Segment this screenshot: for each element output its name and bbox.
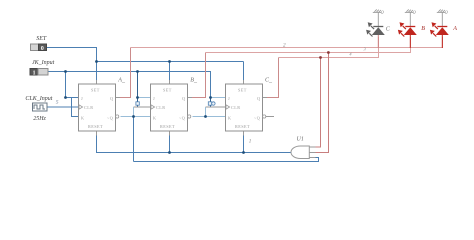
svg-text:J: J: [81, 96, 83, 101]
svg-text:~Q: ~Q: [254, 115, 260, 120]
pin stub SET of A: [96, 80, 98, 84]
ground net 0 above LED C: [373, 9, 381, 26]
pin stub Q of A: [116, 97, 121, 99]
wire J of C stub: [211, 97, 226, 99]
wire SET drop to FF A: [96, 62, 98, 85]
junction JK at x137: [136, 70, 139, 73]
pin stub Q of B: [188, 97, 193, 99]
svg-text:B_: B_: [190, 78, 198, 84]
AND gate U1: [291, 146, 315, 159]
flip-flop C clock triangle: [226, 105, 230, 109]
pin stub RESET of A: [96, 131, 98, 136]
junction notQ of B: [204, 115, 207, 118]
wire SET switch to corner: [47, 48, 97, 62]
flip-flop C box: [226, 84, 263, 131]
svg-text:Q: Q: [257, 96, 260, 101]
pin stub SET of B: [169, 80, 171, 84]
wire step notQ of B up to CLK row: [205, 107, 207, 117]
wire J row to K of A: [72, 98, 79, 117]
wire Q of B to LED B: [192, 53, 206, 98]
flip-flop B box: [151, 84, 188, 131]
LED A (on): [430, 22, 449, 48]
wire JK drop continues to CLK row of C: [210, 98, 212, 108]
wire Q of A to LED A: [120, 48, 131, 98]
pin stub SET of C: [243, 80, 245, 84]
svg-text:SET: SET: [163, 88, 172, 93]
wire notQ of A row: [121, 116, 151, 118]
wire Q of A top line: [131, 37, 443, 48]
svg-text:0: 0: [41, 46, 44, 52]
svg-text:0: 0: [445, 10, 448, 16]
svg-text:B: B: [421, 26, 425, 32]
junction SET at FF B: [168, 60, 171, 63]
flip-flop A notQ bubble: [116, 115, 119, 118]
wire notQ of A drop to bottom line: [133, 117, 135, 162]
svg-text:CLK_Input: CLK_Input: [25, 96, 52, 102]
flip-flop A pin labels: [81, 88, 113, 130]
svg-text:0: 0: [381, 10, 384, 16]
svg-text:CLR: CLR: [156, 105, 166, 110]
wire NAND input 1 drop from Q of C line: [314, 58, 321, 148]
wire J of B stub: [138, 97, 151, 99]
wire JK_Input line: [48, 72, 210, 98]
wire RESET drop FF B: [169, 131, 171, 153]
flip-flop B pin labels: [153, 88, 185, 130]
flip-flop A box: [79, 84, 116, 131]
flip-flop B notQ bubble: [188, 115, 191, 118]
wire JK drop to J of B: [137, 72, 139, 108]
svg-text:RESET: RESET: [88, 124, 103, 129]
junction J of B: [136, 96, 139, 99]
wire CLK row of B: [134, 106, 151, 108]
junction J of C: [209, 96, 212, 99]
svg-text:25Hz: 25Hz: [33, 116, 46, 122]
ground net 0 above LED B: [405, 9, 413, 26]
wire Q of C to LED C: [267, 58, 279, 98]
junction JK at x65: [64, 70, 67, 73]
pin stub RESET of B: [169, 131, 171, 136]
wire Q of C top line: [279, 37, 379, 58]
svg-text:~Q: ~Q: [107, 115, 113, 120]
svg-text:1: 1: [249, 138, 252, 144]
junction NAND input 2: [327, 51, 330, 54]
svg-text:J: J: [153, 96, 155, 101]
net marker square between A and B: [136, 102, 139, 105]
switch SET: [31, 36, 47, 52]
net marker square between B and C: [208, 102, 211, 105]
svg-text:2: 2: [283, 42, 286, 48]
junction J of A: [64, 96, 67, 99]
svg-text:1: 1: [33, 70, 36, 76]
clock source CLK_Input: [25, 96, 52, 122]
flip-flop B clock triangle: [151, 105, 155, 109]
svg-text:CLR: CLR: [84, 105, 94, 110]
svg-text:A_: A_: [117, 78, 126, 84]
wire Q of B top line: [206, 37, 411, 53]
svg-text:0: 0: [413, 10, 416, 16]
wire CLK_Input to CLK of A: [47, 106, 78, 108]
junction notQ of A: [132, 115, 135, 118]
wire bottom long line: [134, 158, 319, 162]
pin stub RESET of C: [243, 131, 245, 136]
svg-text:SET: SET: [238, 88, 247, 93]
svg-text:K: K: [153, 115, 156, 120]
junction NAND input 1: [319, 56, 322, 59]
wire notQ of B row: [193, 116, 226, 118]
net marker circle between B and C: [212, 102, 215, 105]
wire JK drop to J of A: [66, 72, 79, 98]
switch JK_Input: [30, 60, 55, 76]
flip-flop C pin labels: [228, 88, 260, 130]
junction SET at FF A: [95, 60, 98, 63]
svg-text:Q: Q: [110, 96, 113, 101]
wire RESET net from FF A: [97, 131, 292, 153]
ground net 0 above LED A: [437, 9, 445, 26]
svg-text:Q: Q: [182, 96, 185, 101]
wire SET branch line: [97, 61, 244, 63]
flip-flop C notQ bubble: [263, 115, 266, 118]
wire RESET drop FF C: [243, 131, 245, 153]
LED C (off): [366, 22, 385, 48]
svg-text:SET: SET: [36, 36, 47, 42]
junction RESET at FF C: [242, 151, 245, 154]
wire CLK row of C: [206, 106, 226, 108]
svg-text:A: A: [452, 26, 457, 32]
svg-text:C_: C_: [265, 78, 273, 84]
svg-text:SET: SET: [91, 88, 100, 93]
svg-text:~Q: ~Q: [179, 115, 185, 120]
svg-text:RESET: RESET: [160, 124, 175, 129]
wire SET drop to FF C: [243, 62, 245, 85]
junction RESET at FF B: [168, 151, 171, 154]
wire SET drop to FF B: [169, 62, 171, 85]
svg-text:J: J: [228, 96, 230, 101]
svg-text:5: 5: [56, 99, 59, 105]
svg-text:RESET: RESET: [235, 124, 250, 129]
svg-text:K: K: [81, 115, 84, 120]
flip-flop A clock triangle: [79, 105, 83, 109]
LED B (on): [398, 22, 417, 48]
pin stub Q of C: [263, 97, 268, 99]
svg-text:U1: U1: [297, 136, 304, 142]
flip-flop C notQ stub: [266, 116, 274, 118]
wire step notQ of A up to CLK row: [133, 107, 135, 117]
svg-text:CLR: CLR: [231, 105, 241, 110]
svg-text:K: K: [228, 115, 231, 120]
svg-text:JK_Input: JK_Input: [32, 60, 55, 66]
wire NAND input 2 drop from Q of B line: [314, 53, 328, 153]
